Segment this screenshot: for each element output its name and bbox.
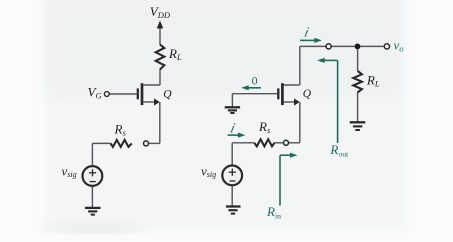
svg-text:Q: Q xyxy=(163,88,172,100)
svg-text:Q: Q xyxy=(303,88,312,100)
svg-text:0: 0 xyxy=(252,73,258,87)
